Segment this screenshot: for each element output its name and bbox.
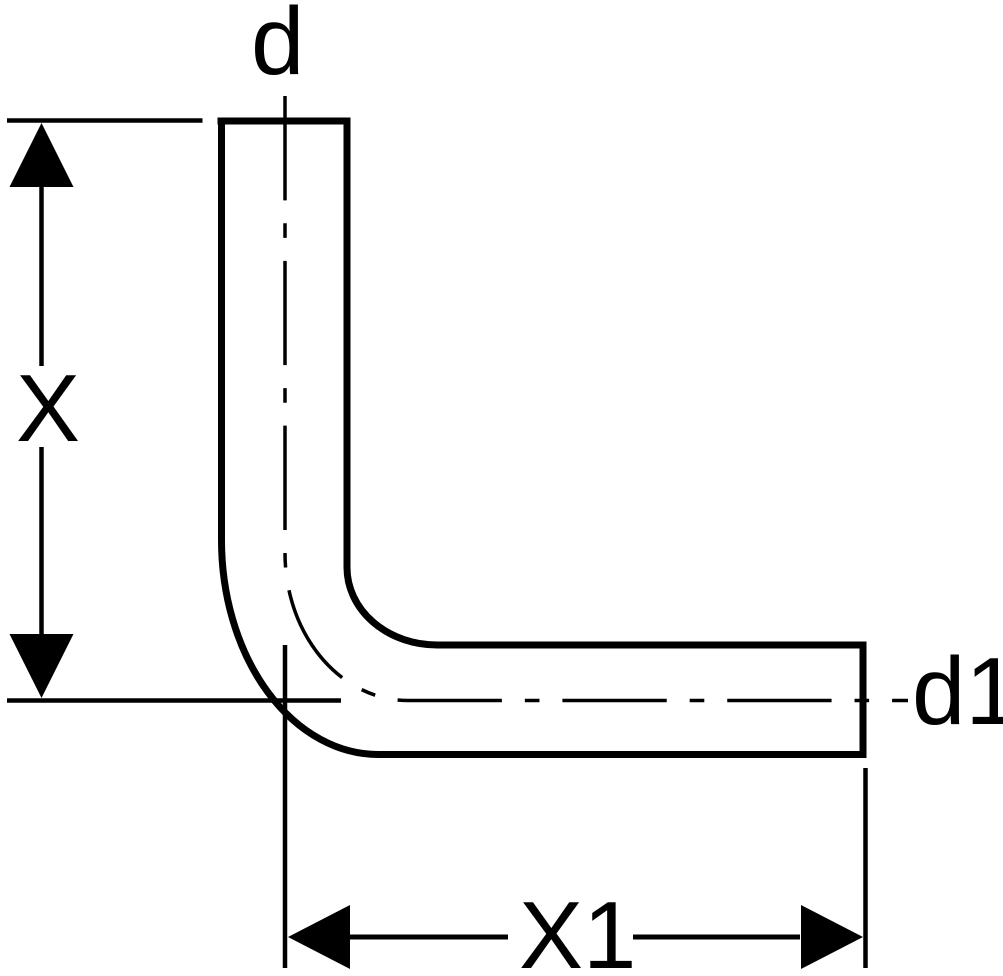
X arrow up bbox=[10, 123, 74, 187]
X1 left extension line bbox=[283, 645, 288, 968]
X dimension line upper segment bbox=[39, 185, 44, 366]
X dimension line lower segment bbox=[39, 447, 44, 639]
X1 arrow left bbox=[288, 905, 350, 969]
svg-text:d: d bbox=[251, 0, 304, 95]
pipe outer edge (left + bend + bottom) bbox=[222, 118, 864, 755]
X1 dimension line right segment bbox=[633, 935, 800, 940]
svg-text:d1: d1 bbox=[912, 638, 1003, 745]
X1 right extension line bbox=[863, 768, 868, 968]
pipe inner edge (right + bend + top) bbox=[347, 118, 863, 646]
pipe end cap bbox=[860, 642, 867, 759]
centerline d/d1 (dash-dot) bbox=[285, 96, 908, 701]
X bottom extension line bbox=[7, 698, 341, 703]
X arrow down bbox=[10, 634, 74, 698]
pipe top cap bbox=[218, 118, 351, 125]
X1 dimension line left segment bbox=[349, 935, 508, 940]
X top extension line bbox=[7, 118, 203, 123]
X1 arrow right bbox=[801, 905, 863, 969]
svg-text:X: X bbox=[16, 355, 80, 462]
svg-text:X1: X1 bbox=[519, 882, 636, 976]
